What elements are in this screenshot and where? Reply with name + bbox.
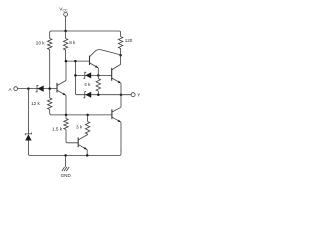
node 4k bottom	[97, 93, 100, 96]
transistor Q3 upper output	[111, 68, 113, 81]
wire 12k bottom to emitter rail	[50, 110, 52, 115]
resistor 120	[118, 37, 122, 49]
transistor Q1	[56, 83, 58, 93]
wire clamp branch	[27, 89, 29, 134]
svg-text:1.5 k: 1.5 k	[52, 126, 63, 131]
node 8k Q1 collector	[65, 60, 68, 63]
wire output row	[77, 94, 131, 96]
wire Q3 emitter down	[120, 83, 122, 95]
resistor 12k	[48, 98, 52, 110]
wire Q1 emitter down	[65, 95, 67, 115]
svg-text:4 k: 4 k	[84, 82, 91, 87]
transistor Q5 squaring	[77, 138, 79, 148]
wire VCC stub	[65, 16, 67, 31]
wire 8k top stub	[65, 31, 67, 39]
svg-text:120: 120	[125, 38, 133, 43]
wire top VCC rail	[50, 31, 121, 39]
svg-text:20 k: 20 k	[36, 40, 45, 45]
diode D2 clamp schottky	[25, 133, 31, 136]
resistor 3k	[87, 115, 89, 122]
transistor Q4 output	[111, 109, 113, 119]
resistor 20k	[48, 39, 52, 50]
resistor 1.5k	[65, 115, 67, 119]
terminal Y	[131, 93, 135, 97]
wire 20k to input node	[49, 50, 51, 99]
wire Q5 emitter down	[86, 150, 88, 156]
svg-text:3 k: 3 k	[76, 125, 83, 130]
wire 8k bottom	[65, 50, 67, 61]
svg-text:Y: Y	[137, 93, 140, 98]
diode D1 input schottky	[36, 85, 39, 91]
resistor 8k	[63, 39, 67, 51]
node D3 branch	[74, 74, 77, 77]
wire diode column	[75, 61, 77, 95]
ground GND symbol	[65, 155, 67, 167]
diode D3 schottky	[83, 72, 86, 78]
wire Q3 collector up	[120, 55, 122, 64]
wire Q1 collector up	[65, 61, 67, 80]
transistor Q2	[89, 56, 91, 65]
wire 120 bottom	[120, 49, 122, 56]
wire Q4 emitter down	[120, 122, 122, 151]
node Q5 emitter	[86, 154, 89, 157]
wire clamp to ground rail	[28, 141, 30, 156]
wire 8k node line	[66, 60, 90, 62]
node ground stub	[64, 154, 67, 157]
terminal A	[14, 87, 18, 91]
wire D3 row	[75, 74, 111, 76]
node 120 bottom junction	[119, 54, 122, 57]
wire ground rail	[30, 150, 121, 155]
wire Q4 collector up	[120, 95, 122, 108]
node base junction	[48, 87, 51, 90]
svg-text:A: A	[9, 87, 13, 92]
node 3k top	[86, 114, 89, 117]
wire Q2 emitter down	[97, 68, 99, 76]
svg-text:8 k: 8 k	[69, 40, 76, 45]
wire emitter row	[51, 114, 112, 116]
svg-text:VCC: VCC	[59, 7, 68, 13]
svg-text:GND: GND	[61, 173, 72, 178]
node 1p5k top	[65, 114, 68, 117]
resistor 4k	[96, 79, 100, 92]
node VCC rail junction	[64, 30, 67, 33]
node output junction	[120, 93, 123, 96]
node 4k top	[97, 74, 100, 77]
diode D4 schottky	[83, 92, 86, 98]
node input clamp junction	[27, 87, 30, 90]
wire input line	[18, 88, 57, 90]
power VCC terminal	[64, 13, 68, 17]
node diode column top	[74, 60, 77, 63]
svg-text:12 k: 12 k	[31, 101, 40, 106]
